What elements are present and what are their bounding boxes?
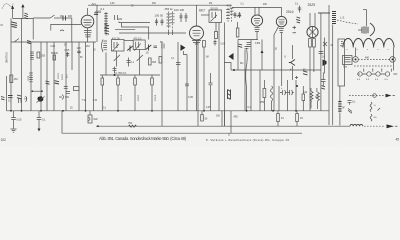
dash row: [354, 65, 393, 67]
gang box 2: [133, 40, 145, 50]
dashed to speaker: [337, 20, 358, 24]
osc coil L2: [104, 12, 108, 36]
tube V1 6A8: [81, 15, 94, 28]
tuning cap 1: [114, 55, 120, 63]
primary coil blob: [11, 22, 17, 28]
wire to grid: [63, 17, 72, 19]
pulley 2: [390, 57, 396, 63]
wire osc step: [119, 22, 150, 40]
tube V4 25L6: [276, 16, 286, 26]
left section bus: [11, 41, 96, 43]
zigzag resistor x311: [310, 88, 313, 109]
grid cap riser: [96, 5, 98, 14]
cap below bus 1: [11, 111, 22, 129]
cluster x129: [127, 58, 135, 67]
top labels row: [110, 2, 299, 8]
hang resistor 3: [151, 75, 156, 111]
zigzag resistor x317.4: [316, 88, 319, 109]
cap tick: [60, 30, 64, 31]
junction bar: [318, 12, 330, 14]
blob x240: [238, 44, 242, 47]
det blob: [181, 45, 187, 51]
dial cord line: [358, 58, 390, 60]
ground: [11, 129, 17, 132]
main bus A: [7, 110, 330, 112]
vertical x264 arrow: [261, 40, 263, 71]
power vertical 2: [328, 5, 330, 125]
avc cap blob: [8, 95, 21, 99]
resistor 1meg: [195, 41, 206, 48]
wire V1 drop: [87, 28, 89, 42]
power vertical 1: [320, 13, 322, 111]
pulley 1: [353, 57, 359, 63]
vertical x47: [46, 42, 48, 111]
Tps coil upper: [370, 102, 377, 112]
IF transformer T2: [226, 4, 233, 22]
long vertical x164.5: [161, 42, 163, 126]
ballast hatch: [332, 12, 336, 24]
junction blob node: [63, 16, 66, 21]
resistor blob: [37, 52, 46, 58]
resistor below bus x202: [201, 111, 208, 121]
jack angle: [289, 60, 295, 66]
speaker SP: [358, 10, 375, 37]
varcap arrow 1: [127, 46, 133, 52]
resistor 750 on bus: [128, 122, 137, 127]
dial box: [343, 56, 353, 65]
osc coil lower: [102, 40, 108, 53]
wire box link: [124, 40, 133, 42]
top wire 2: [232, 6, 259, 8]
resistor x11.5: [10, 75, 18, 83]
plus marks x294: [293, 26, 297, 33]
blob x79: [77, 47, 82, 54]
vertical x245: [244, 50, 246, 111]
wire y24.4: [51, 24, 81, 30]
resistor under box: [215, 23, 218, 39]
trimmer caps t1: [155, 19, 158, 26]
wires below boxes: [106, 50, 140, 76]
wire y91: [32, 90, 42, 92]
resistor x160: [159, 57, 162, 64]
rect x76: [74, 87, 80, 91]
field coil bumps: [343, 38, 394, 47]
cap x68: [66, 92, 70, 94]
blob x304: [303, 71, 308, 75]
coil squiggle x271.5: [270, 86, 272, 111]
wire x23 drop: [21, 18, 23, 110]
V2 drop: [196, 40, 198, 111]
elec cap 8uF: [88, 111, 98, 123]
resistor x278: [277, 111, 285, 126]
elec cap blob: [59, 95, 69, 100]
cap low x114: [113, 67, 117, 74]
vertical x283 w cap: [278, 86, 280, 111]
resistor 250: [260, 80, 266, 111]
socket hatch V2: [192, 41, 201, 43]
cap pair x291: [287, 90, 293, 95]
osc coil blob: [105, 25, 110, 35]
cap x210: [209, 73, 213, 85]
gang box 1: [112, 40, 125, 52]
blob row y81: [46, 81, 50, 84]
arrow right: [387, 124, 395, 128]
wire y72 right: [300, 69, 321, 71]
jog wire: [338, 39, 345, 86]
switch 2: [14, 39, 19, 43]
Tps coil lower: [370, 108, 380, 121]
jack J1: [228, 90, 231, 100]
pointer circle: [373, 94, 377, 98]
wire band line: [33, 17, 50, 19]
tube V2 6K7: [190, 26, 204, 40]
resistor R-an: [236, 28, 239, 37]
label cluster 50000: [51, 52, 59, 60]
blob x68: [65, 49, 70, 57]
cap x323: [321, 73, 326, 86]
volume pot blob: [38, 96, 44, 102]
electrolytic: [280, 90, 287, 95]
pointer dash: [349, 95, 384, 97]
vertical x204: [203, 47, 205, 111]
det diode blob 2: [228, 53, 234, 60]
cap x246: [245, 47, 249, 49]
verticals x173 x186: [177, 42, 179, 111]
wire V2 top: [196, 5, 198, 26]
dashes to arrow: [364, 125, 384, 127]
hang resistor 2: [134, 75, 139, 111]
wire diag V4: [274, 27, 279, 111]
junction blob y72: [233, 69, 235, 71]
marks x248: [247, 43, 251, 47]
vertical x231: [230, 111, 232, 133]
resistor x102: [101, 75, 104, 111]
tube V3 6Q7: [251, 15, 262, 26]
tuning cap 2: [137, 55, 143, 63]
cap below bus 2: [37, 111, 46, 132]
grid cap blob: [94, 13, 98, 15]
band blob: [27, 41, 31, 44]
cap 0,1 x351: [348, 101, 357, 114]
misc value labels: [24, 43, 334, 118]
corner x238: [238, 40, 258, 71]
relay flag: [323, 60, 327, 67]
cap on x321: [319, 52, 324, 54]
upper mid bus y75: [100, 74, 160, 76]
IF transformer T1: [165, 7, 175, 35]
rule segment: [228, 133, 230, 136]
padder box1: [115, 15, 118, 20]
corner squiggle: [2, 3, 13, 9]
vertical x210.5: [210, 85, 212, 111]
vertical x246.6: [246, 48, 248, 111]
antenna arrow A1: [11, 6, 14, 19]
resistor x150: [149, 58, 157, 65]
pointer arrow: [386, 94, 392, 98]
cap 50: [160, 41, 164, 49]
wire x292: [291, 45, 293, 80]
vertical x260: [259, 70, 261, 111]
vertical x38: [40, 42, 42, 111]
vertical x289 x296: [287, 80, 289, 111]
step riser x62: [62, 111, 302, 133]
wire step: [32, 18, 34, 39]
verticals mid-left: [53, 42, 55, 111]
wire left drop: [10, 18, 12, 110]
wire avc y33: [119, 32, 186, 34]
vertical pair x222: [222, 111, 224, 126]
vertical x224.4: [223, 23, 225, 127]
hang resistor 1: [117, 75, 122, 111]
socket V4: [279, 29, 284, 33]
wire box2-tube2: [201, 14, 209, 16]
long vertical x197: [197, 40, 199, 126]
vertical x251: [250, 40, 252, 111]
resistor hatch x340: [338, 102, 341, 112]
caps if2: [233, 12, 236, 18]
V5 lower rects: [309, 39, 316, 111]
vertical x31: [30, 42, 32, 111]
coil dashes: [30, 52, 34, 59]
socket V3: [255, 28, 260, 32]
switch SW1: [50, 15, 54, 18]
lamps: [357, 69, 397, 81]
socket hatch V1: [84, 31, 92, 37]
wire y29: [115, 28, 135, 30]
wire y71.5: [231, 69, 300, 71]
antenna arrow A2: [21, 4, 24, 18]
top bus B+: [88, 4, 232, 6]
varcap arrow 2: [146, 45, 152, 51]
output coil bumps: [350, 124, 363, 126]
resistor x297: [296, 111, 304, 126]
bus B y126.2: [96, 125, 350, 127]
power x marks: [325, 38, 330, 74]
strong vertical x332.7: [332, 25, 334, 126]
antenna coil blob: [24, 13, 28, 19]
wire antenna join: [13, 17, 34, 19]
cap at 186: [185, 84, 189, 86]
box trimmers 2: [209, 10, 222, 22]
junction +: [295, 76, 298, 79]
switch blob: [296, 17, 300, 23]
resistor 510: [302, 86, 308, 111]
cap 0,1 line: [298, 6, 302, 13]
caps c-if: [179, 13, 182, 22]
cap x215: [213, 40, 216, 46]
junction dots busA: [10, 110, 297, 112]
vertical x219: [218, 23, 220, 111]
tube V5 25Z5: [307, 26, 318, 37]
